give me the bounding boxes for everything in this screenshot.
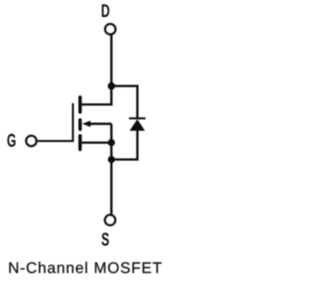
MOSFET Q1 drain lead — [81, 86, 111, 105]
junction drain node — [108, 82, 115, 89]
MOSFET Q1 middle channel bar — [78, 120, 81, 129]
MOSFET Q1 body arrow tail — [86, 123, 111, 125]
terminal G — [26, 136, 37, 147]
MOSFET Q1 bottom channel bar — [78, 136, 81, 150]
wire diode cathode branch — [111, 86, 137, 118]
caption N-Channel MOSFET — [9, 262, 161, 273]
label D — [102, 5, 109, 17]
junction source node 1 — [108, 139, 115, 146]
wire source vertical upper — [110, 143, 112, 160]
label S — [102, 233, 109, 245]
wire body to source junction — [110, 124, 112, 143]
MOSFET Q1 gate plate and gate wire — [38, 103, 73, 141]
junction source node 2 — [108, 156, 115, 163]
wire diode anode branch — [111, 131, 137, 160]
terminal D — [105, 24, 116, 35]
wire drain vertical — [110, 35, 112, 86]
MOSFET Q1 source lead — [81, 141, 111, 143]
diode D1 anode triangle — [130, 119, 145, 130]
terminal S — [105, 215, 116, 226]
wire source vertical lower — [110, 160, 112, 215]
diode D1 cathode bar — [129, 117, 146, 119]
MOSFET Q1 body arrowhead — [82, 121, 90, 127]
label G — [8, 134, 15, 146]
MOSFET Q1 top channel bar — [78, 97, 81, 112]
